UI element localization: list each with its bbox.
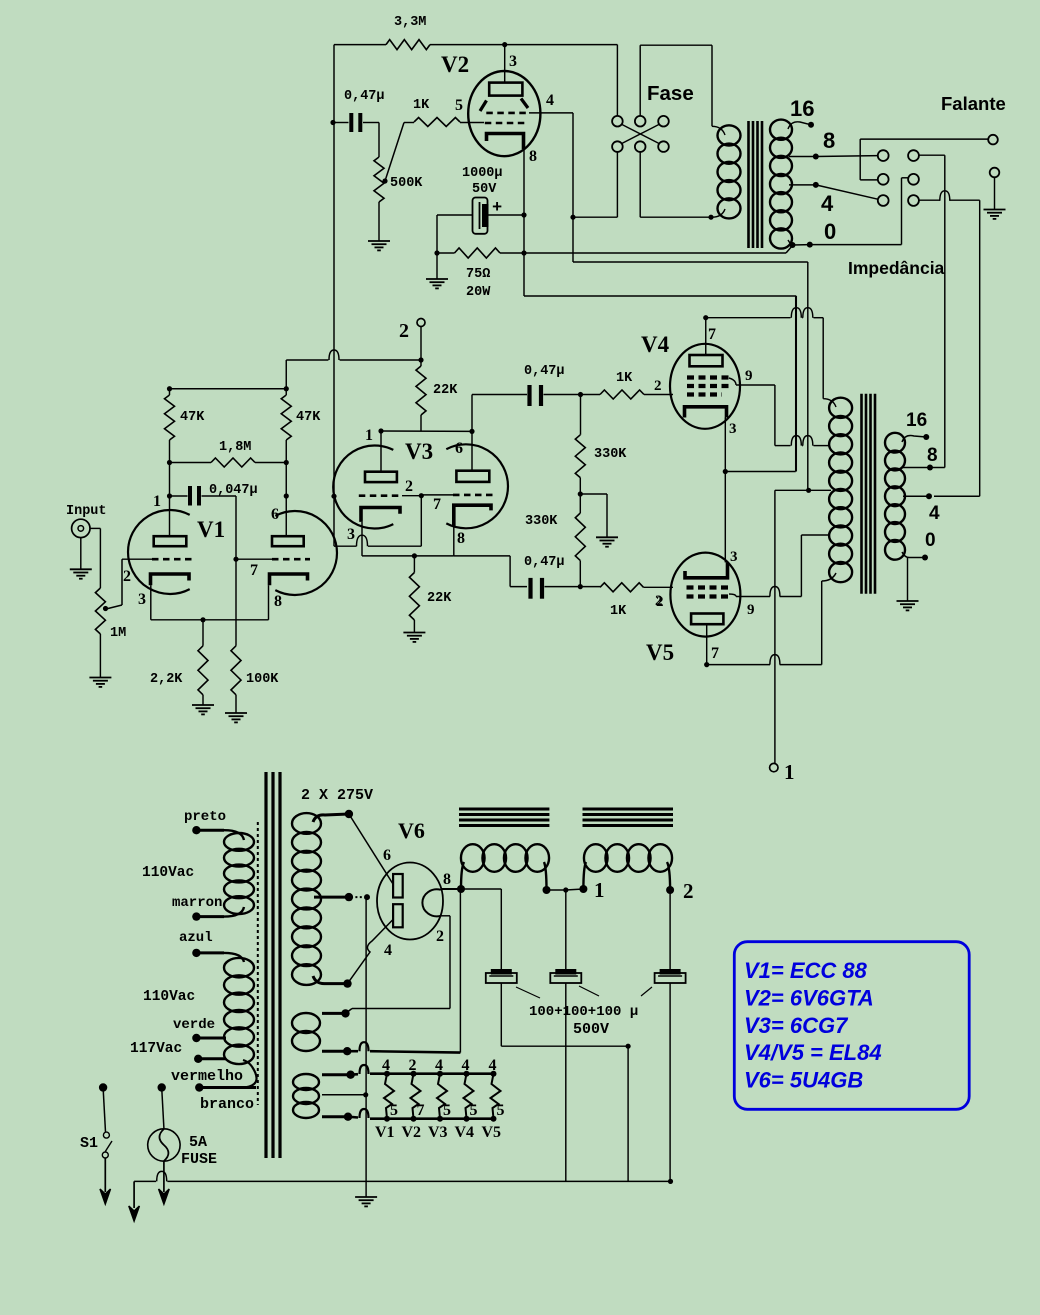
svg-text:5: 5 bbox=[497, 1102, 505, 1119]
svg-text:2: 2 bbox=[409, 1057, 417, 1074]
svg-text:0,47µ: 0,47µ bbox=[524, 555, 565, 570]
svg-text:4: 4 bbox=[546, 92, 554, 109]
svg-text:verde: verde bbox=[173, 1017, 215, 1033]
svg-text:9: 9 bbox=[745, 368, 753, 384]
svg-text:117Vac: 117Vac bbox=[130, 1041, 182, 1057]
svg-text:2,2K: 2,2K bbox=[150, 672, 183, 687]
svg-text:330K: 330K bbox=[525, 514, 558, 529]
svg-text:3: 3 bbox=[730, 549, 738, 565]
svg-text:8: 8 bbox=[823, 128, 835, 153]
svg-text:5A: 5A bbox=[189, 1134, 207, 1151]
svg-text:V3: V3 bbox=[428, 1124, 448, 1141]
svg-text:5: 5 bbox=[470, 1102, 478, 1119]
svg-text:16: 16 bbox=[906, 410, 927, 431]
svg-text:7: 7 bbox=[708, 326, 716, 343]
svg-text:8: 8 bbox=[927, 445, 938, 466]
svg-text:1: 1 bbox=[594, 878, 605, 902]
svg-text:8: 8 bbox=[274, 593, 282, 610]
svg-text:500K: 500K bbox=[390, 176, 423, 191]
svg-text:1K: 1K bbox=[413, 98, 430, 113]
svg-text:8: 8 bbox=[529, 148, 537, 165]
svg-text:7: 7 bbox=[433, 496, 441, 513]
svg-text:3: 3 bbox=[347, 526, 355, 543]
svg-text:vermelho: vermelho bbox=[171, 1068, 243, 1085]
svg-text:47K: 47K bbox=[296, 410, 321, 425]
svg-text:V5: V5 bbox=[482, 1124, 502, 1141]
svg-text:branco: branco bbox=[200, 1096, 254, 1113]
svg-text:3: 3 bbox=[729, 421, 737, 437]
svg-text:4: 4 bbox=[929, 503, 940, 524]
svg-text:47K: 47K bbox=[180, 410, 205, 425]
svg-text:Impedância: Impedância bbox=[848, 258, 945, 278]
svg-text:7: 7 bbox=[250, 562, 258, 579]
svg-text:2 X 275V: 2 X 275V bbox=[301, 787, 373, 804]
svg-text:Fase: Fase bbox=[647, 82, 694, 105]
svg-text:100+100+100 µ: 100+100+100 µ bbox=[529, 1004, 638, 1020]
svg-text:V1= ECC 88: V1= ECC 88 bbox=[744, 958, 868, 983]
svg-text:5: 5 bbox=[390, 1102, 398, 1119]
svg-text:1: 1 bbox=[784, 760, 795, 784]
svg-text:4: 4 bbox=[462, 1057, 470, 1074]
svg-text:0,047µ: 0,047µ bbox=[209, 483, 258, 498]
svg-text:4: 4 bbox=[384, 942, 392, 959]
svg-text:500V: 500V bbox=[573, 1021, 609, 1038]
svg-text:75Ω: 75Ω bbox=[466, 267, 490, 282]
svg-text:0,47µ: 0,47µ bbox=[344, 89, 385, 104]
svg-text:20W: 20W bbox=[466, 285, 491, 300]
svg-text:V2: V2 bbox=[441, 52, 469, 77]
svg-text:FUSE: FUSE bbox=[181, 1151, 217, 1168]
svg-text:9: 9 bbox=[747, 602, 755, 618]
svg-text:azul: azul bbox=[179, 930, 213, 946]
svg-text:6: 6 bbox=[271, 506, 279, 523]
svg-text:Input: Input bbox=[66, 504, 107, 519]
svg-text:0: 0 bbox=[824, 219, 836, 244]
svg-text:S1: S1 bbox=[80, 1135, 98, 1152]
svg-text:2: 2 bbox=[399, 320, 409, 342]
svg-text:V6: V6 bbox=[398, 818, 425, 843]
svg-text:2: 2 bbox=[123, 568, 131, 585]
svg-text:22K: 22K bbox=[427, 591, 452, 606]
svg-text:100K: 100K bbox=[246, 672, 279, 687]
svg-text:8: 8 bbox=[457, 530, 465, 547]
svg-text:110Vac: 110Vac bbox=[143, 989, 195, 1005]
svg-text:8: 8 bbox=[443, 871, 451, 888]
svg-text:6: 6 bbox=[383, 847, 391, 864]
svg-text:6: 6 bbox=[455, 440, 463, 457]
svg-text:3,3M: 3,3M bbox=[394, 15, 426, 30]
svg-text:1: 1 bbox=[153, 493, 161, 510]
svg-text:2: 2 bbox=[436, 928, 444, 945]
svg-text:2: 2 bbox=[654, 378, 662, 394]
svg-text:V4: V4 bbox=[641, 332, 670, 357]
svg-text:2: 2 bbox=[405, 478, 413, 495]
svg-text:3: 3 bbox=[138, 591, 146, 608]
svg-text:V2: V2 bbox=[402, 1124, 422, 1141]
svg-text:1000µ: 1000µ bbox=[462, 166, 503, 181]
svg-text:V1: V1 bbox=[197, 517, 225, 542]
svg-text:1K: 1K bbox=[616, 371, 633, 386]
svg-text:5: 5 bbox=[443, 1102, 451, 1119]
svg-text:330K: 330K bbox=[594, 447, 627, 462]
svg-text:V1: V1 bbox=[375, 1124, 395, 1141]
svg-text:V4: V4 bbox=[455, 1124, 475, 1141]
svg-text:5: 5 bbox=[455, 97, 463, 114]
svg-text:4: 4 bbox=[821, 191, 834, 216]
svg-text:Falante: Falante bbox=[941, 93, 1006, 114]
svg-text:V4/V5 = EL84: V4/V5 = EL84 bbox=[744, 1040, 882, 1065]
svg-text:1,8M: 1,8M bbox=[219, 440, 251, 455]
svg-text:1M: 1M bbox=[110, 626, 126, 641]
svg-text:4: 4 bbox=[435, 1057, 443, 1074]
svg-text:0,47µ: 0,47µ bbox=[524, 364, 565, 379]
svg-text:7: 7 bbox=[417, 1102, 425, 1119]
svg-text:1: 1 bbox=[365, 427, 373, 444]
svg-text:2: 2 bbox=[656, 594, 664, 610]
svg-text:preto: preto bbox=[184, 809, 226, 825]
svg-text:V5: V5 bbox=[646, 640, 674, 665]
svg-text:22K: 22K bbox=[433, 383, 458, 398]
svg-text:16: 16 bbox=[790, 96, 814, 121]
svg-text:4: 4 bbox=[382, 1057, 390, 1074]
svg-text:V3: V3 bbox=[405, 439, 433, 464]
svg-text:V2= 6V6GTA: V2= 6V6GTA bbox=[744, 985, 874, 1010]
svg-text:0: 0 bbox=[925, 530, 936, 551]
svg-text:110Vac: 110Vac bbox=[142, 865, 194, 881]
svg-text:50V: 50V bbox=[472, 182, 497, 197]
svg-text:1K: 1K bbox=[610, 604, 627, 619]
svg-text:V3= 6CG7: V3= 6CG7 bbox=[744, 1013, 849, 1038]
svg-text:2: 2 bbox=[683, 879, 694, 903]
svg-text:4: 4 bbox=[489, 1057, 497, 1074]
svg-text:marron: marron bbox=[172, 895, 222, 911]
svg-text:V6= 5U4GB: V6= 5U4GB bbox=[744, 1068, 863, 1093]
svg-text:7: 7 bbox=[711, 645, 719, 662]
svg-text:3: 3 bbox=[509, 53, 517, 70]
